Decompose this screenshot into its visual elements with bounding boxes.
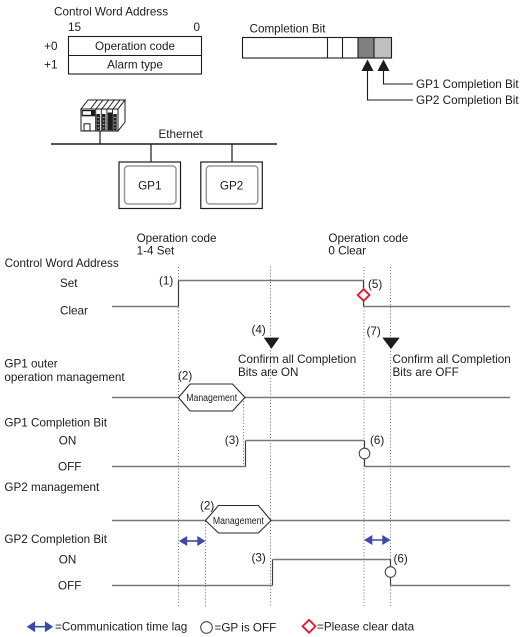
- svg-text:Alarm type: Alarm type: [107, 59, 163, 72]
- svg-text:Clear: Clear: [60, 305, 88, 318]
- svg-text:Set: Set: [60, 277, 78, 290]
- svg-text:Operation code: Operation code: [328, 232, 408, 245]
- wire ethernet to GP1: [150, 144, 152, 162]
- dotted line event 3 GP1 (x=244): [243, 398, 245, 467]
- dotted line event 2 end GP2 (x=205.8): [205, 521, 207, 606]
- waveform GP2 completion bit: [112, 560, 510, 586]
- marker please clear data (red diamond): [358, 289, 370, 301]
- waveform control word address: [112, 281, 510, 307]
- svg-text:Completion Bit: Completion Bit: [250, 23, 327, 36]
- svg-text:+1: +1: [44, 59, 57, 72]
- svg-text:1-4 Set: 1-4 Set: [137, 245, 175, 258]
- wire GP1 management line left: [112, 397, 179, 399]
- dotted line event 1 (x=178.6): [178, 267, 180, 606]
- svg-text:Management: Management: [186, 393, 237, 404]
- wire GP2 management line right: [271, 520, 510, 522]
- marker triangle event 7: [382, 338, 399, 349]
- svg-text:=Please clear data: =Please clear data: [317, 621, 415, 634]
- svg-text:(1): (1): [159, 275, 173, 288]
- svg-text:(7): (7): [367, 325, 381, 338]
- marker communication lag arrow 1: [179, 536, 206, 546]
- wire ethernet to GP2: [231, 144, 233, 162]
- svg-text:Control Word Address: Control Word Address: [54, 6, 168, 19]
- svg-text:(3): (3): [225, 434, 239, 447]
- svg-text:0: 0: [193, 21, 200, 34]
- svg-text:=GP is OFF: =GP is OFF: [215, 622, 277, 635]
- svg-text:(3): (3): [252, 552, 266, 565]
- marker GP is OFF circle GP1: [359, 448, 370, 459]
- GP2 device: [201, 162, 262, 209]
- svg-text:Confirm all Completion: Confirm all Completion: [393, 353, 511, 366]
- svg-text:ON: ON: [59, 554, 77, 567]
- svg-text:=Communication time lag: =Communication time lag: [55, 621, 187, 634]
- GP1 device: [119, 162, 181, 209]
- svg-text:(6): (6): [394, 552, 408, 565]
- svg-text:GP2 Completion Bit: GP2 Completion Bit: [416, 94, 519, 107]
- hexagon GP1 management: [179, 384, 246, 411]
- PLC icon: [81, 100, 125, 131]
- svg-text:GP2: GP2: [220, 179, 243, 192]
- svg-text:15: 15: [68, 21, 82, 34]
- svg-text:OFF: OFF: [58, 460, 81, 473]
- legend GP is OFF: [201, 622, 213, 634]
- legend communication time lag: [27, 621, 53, 632]
- svg-text:Ethernet: Ethernet: [159, 128, 204, 141]
- svg-text:GP1 Completion Bit: GP1 Completion Bit: [4, 416, 107, 429]
- wire GP1 management line right: [245, 397, 510, 399]
- svg-text:Control Word Address: Control Word Address: [5, 257, 119, 270]
- svg-text:OFF: OFF: [58, 579, 81, 592]
- svg-text:GP1 Completion Bit: GP1 Completion Bit: [416, 78, 519, 91]
- svg-text:GP1 outer: GP1 outer: [4, 358, 57, 371]
- svg-text:(6): (6): [370, 434, 384, 447]
- svg-text:Confirm all Completion: Confirm all Completion: [238, 353, 356, 366]
- waveform GP1 completion bit: [112, 441, 510, 467]
- register table Control Word: [69, 37, 202, 75]
- svg-text:operation management: operation management: [4, 371, 125, 384]
- hexagon GP2 management: [206, 506, 272, 534]
- svg-text:Management: Management: [213, 516, 264, 527]
- svg-text:(2): (2): [200, 500, 214, 513]
- completion bit register: [243, 38, 393, 59]
- svg-text:GP2 management: GP2 management: [4, 481, 100, 494]
- dotted line event 5 (x=364): [363, 267, 365, 606]
- dotted line event 7 (x=390.2): [390, 267, 392, 606]
- svg-text:+0: +0: [44, 40, 58, 53]
- ethernet bus: [51, 143, 277, 145]
- marker triangle event 4: [264, 338, 280, 349]
- svg-text:Bits are ON: Bits are ON: [238, 366, 298, 379]
- svg-text:(5): (5): [368, 278, 382, 291]
- svg-text:Bits are OFF: Bits are OFF: [393, 366, 459, 379]
- svg-text:Operation code: Operation code: [137, 232, 217, 245]
- marker GP is OFF circle GP2: [385, 567, 396, 578]
- svg-text:0 Clear: 0 Clear: [328, 245, 366, 258]
- svg-text:Operation code: Operation code: [95, 40, 175, 53]
- dotted line event 4 (x=270.3): [270, 267, 272, 607]
- wire PLC to ethernet: [99, 131, 101, 144]
- marker communication lag arrow 2: [364, 535, 391, 545]
- svg-text:ON: ON: [59, 434, 77, 447]
- pointer GP1 completion bit (right arrow): [378, 60, 414, 85]
- svg-text:(4): (4): [252, 324, 266, 337]
- wire GP2 management line left: [112, 520, 206, 522]
- svg-text:GP2 Completion Bit: GP2 Completion Bit: [4, 533, 107, 546]
- pointer GP2 completion bit (left arrow): [362, 60, 414, 101]
- legend please clear data: [303, 620, 316, 633]
- svg-text:GP1: GP1: [138, 179, 161, 192]
- svg-text:(2): (2): [178, 369, 192, 382]
